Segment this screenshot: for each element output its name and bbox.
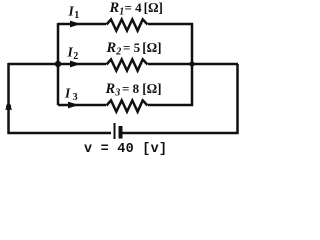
resistor R1 zigzag	[107, 19, 148, 30]
wire: left outer vertical	[7, 63, 10, 134]
junction node dot left	[55, 61, 61, 67]
wire: top branch left segment (node A to R1)	[58, 23, 106, 26]
wire: left bus vertical	[57, 23, 60, 105]
wire: bottom branch (node to R3)	[58, 104, 106, 107]
svg-text:I: I	[64, 85, 71, 100]
current arrow I (total, upward) on left outer wire	[5, 101, 12, 110]
svg-text:3: 3	[114, 88, 120, 99]
wire: top branch right segment (R1 to right bus)	[148, 23, 193, 26]
current arrow I3	[68, 102, 79, 109]
wire: right bus vertical	[191, 23, 194, 106]
svg-text:= 5: = 5	[123, 40, 141, 55]
svg-text:1: 1	[74, 10, 79, 21]
wire: middle branch left outer segment	[8, 63, 58, 66]
svg-text:[Ω]: [Ω]	[144, 0, 163, 15]
svg-text:R: R	[105, 81, 116, 97]
svg-text:2: 2	[115, 47, 121, 58]
wire: middle branch (node to R2)	[58, 63, 106, 66]
svg-text:v = 40 [v]: v = 40 [v]	[84, 142, 167, 157]
wire: bottom branch right segment (R3 to right bus)	[148, 104, 193, 107]
wire: bottom left segment (to battery)	[8, 132, 112, 135]
svg-text:[Ω]: [Ω]	[142, 40, 161, 55]
junction node dot right	[189, 61, 194, 66]
svg-text:3: 3	[73, 92, 78, 103]
wire: bottom right segment (battery to right)	[123, 132, 239, 135]
resistor R3 zigzag	[107, 100, 148, 111]
battery V: long thin plate	[114, 123, 116, 139]
wire: middle branch right segment (R2 to right bus)	[148, 63, 192, 66]
svg-text:= 4: = 4	[125, 0, 143, 15]
wire: right outer vertical	[236, 64, 239, 134]
battery V: short thick plate	[119, 126, 123, 139]
wire: middle branch right outer segment	[192, 63, 238, 66]
current arrow I2	[70, 61, 81, 68]
current arrow I1	[70, 21, 81, 28]
svg-text:2: 2	[73, 51, 78, 62]
svg-text:R: R	[106, 40, 117, 56]
svg-text:= 8: = 8	[122, 81, 140, 96]
svg-text:[Ω]: [Ω]	[142, 81, 161, 96]
resistor R2 zigzag	[107, 59, 148, 70]
svg-text:R: R	[109, 0, 120, 16]
